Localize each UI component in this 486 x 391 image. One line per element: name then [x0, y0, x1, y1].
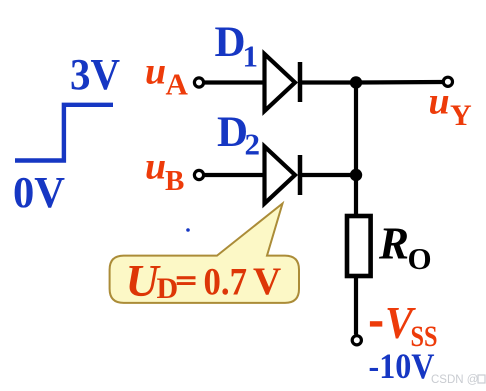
wire D1 cathode to node — [300, 80, 356, 84]
svg-text:u: u — [145, 146, 166, 188]
svg-text:D: D — [215, 19, 246, 66]
node uY label — [429, 81, 473, 133]
svg-text:1: 1 — [243, 39, 259, 74]
svg-text:CSDN @: CSDN @ — [431, 374, 478, 386]
svg-text:u: u — [429, 81, 450, 123]
input step waveform — [15, 105, 113, 161]
svg-text:Y: Y — [450, 99, 472, 132]
diode D2 label — [217, 109, 260, 161]
junction node 2 — [350, 169, 362, 181]
diode D2 — [265, 147, 301, 204]
callout text UD = 0.7 V — [126, 255, 282, 306]
diode D1 label — [215, 19, 259, 74]
terminal uY — [443, 77, 452, 86]
svg-text:B: B — [165, 165, 184, 197]
vertical bus wire — [354, 83, 358, 217]
svg-text:-10V: -10V — [369, 346, 435, 386]
svg-text:V: V — [253, 260, 281, 303]
svg-text:3V: 3V — [70, 50, 120, 99]
diode D1 — [265, 54, 301, 111]
label -VSS — [370, 297, 438, 353]
svg-text:O: O — [408, 241, 432, 276]
svg-text:R: R — [378, 219, 409, 269]
wire uB to D2 anode — [204, 173, 266, 177]
callout balloon UD = 0.7 V — [110, 204, 299, 303]
resistor RO — [347, 216, 371, 276]
wire D2 cathode to node — [300, 173, 356, 177]
node uA label — [145, 51, 189, 102]
terminal uB — [194, 170, 203, 179]
junction node 1 — [350, 76, 362, 88]
node uB label — [145, 146, 184, 198]
wire output node to terminal uY — [356, 80, 443, 85]
stray blue dot — [186, 228, 190, 232]
terminal uA — [194, 78, 203, 87]
svg-text:2: 2 — [245, 126, 261, 161]
svg-text:D: D — [157, 272, 179, 305]
svg-text:A: A — [166, 67, 189, 102]
watermark CSDN — [431, 374, 485, 386]
svg-text:0V: 0V — [13, 168, 65, 217]
terminal -VSS — [352, 336, 361, 345]
svg-text:D: D — [217, 109, 248, 156]
wire resistor to -VSS terminal — [354, 278, 358, 335]
resistor RO label — [378, 219, 432, 277]
svg-text:u: u — [145, 51, 166, 93]
svg-text:0.7: 0.7 — [204, 261, 248, 304]
wire uA to D1 anode — [204, 80, 266, 84]
